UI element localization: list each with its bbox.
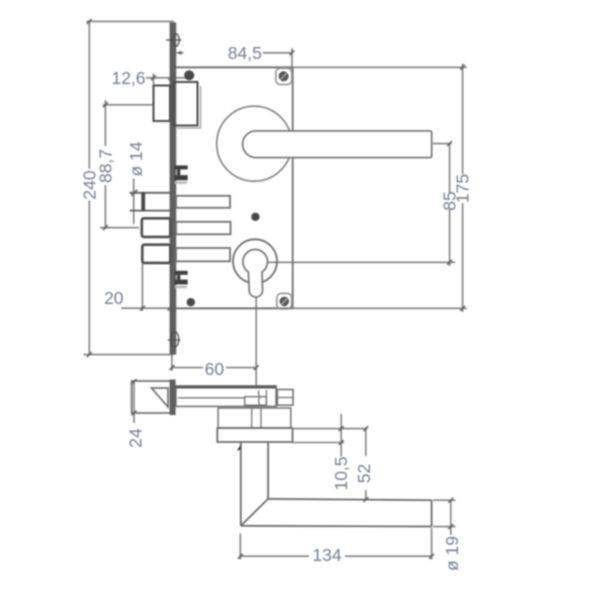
svg-text:88,7: 88,7 — [95, 149, 115, 183]
svg-text:ø 19: ø 19 — [442, 536, 462, 571]
svg-text:12,6: 12,6 — [111, 68, 145, 88]
svg-text:52: 52 — [354, 464, 374, 483]
svg-text:134: 134 — [312, 545, 341, 565]
svg-text:ø 14: ø 14 — [126, 141, 146, 176]
svg-text:175: 175 — [453, 174, 473, 203]
svg-text:84,5: 84,5 — [228, 43, 262, 63]
svg-text:60: 60 — [205, 359, 225, 379]
svg-text:10,5: 10,5 — [331, 456, 351, 490]
svg-text:20: 20 — [104, 288, 124, 308]
svg-text:24: 24 — [126, 428, 146, 448]
